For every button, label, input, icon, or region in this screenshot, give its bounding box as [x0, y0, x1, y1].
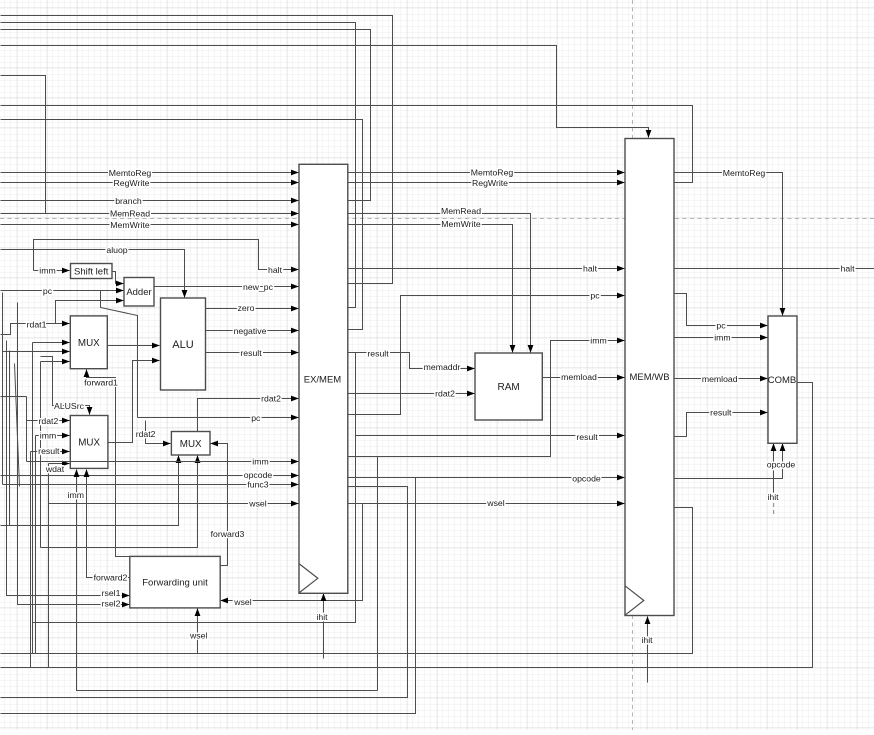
- wire MUX2 output to ALU: [108, 361, 160, 443]
- svg-text:MemtoReg: MemtoReg: [723, 168, 766, 178]
- svg-text:forward1: forward1: [84, 378, 118, 388]
- svg-text:rdat2: rdat2: [136, 429, 156, 439]
- MUX2 operand B: [70, 416, 108, 469]
- svg-text:result: result: [710, 407, 732, 417]
- svg-text:MUX: MUX: [78, 438, 100, 449]
- wire regfile vertical: [9, 351, 11, 526]
- wire MUX1 input4 vertical: [40, 362, 42, 548]
- svg-text:memaddr: memaddr: [424, 362, 461, 372]
- svg-text:negative: negative: [234, 326, 267, 336]
- wire imm into MUX2 vertical: [35, 436, 37, 654]
- svg-text:pc: pc: [590, 291, 600, 301]
- svg-text:halt: halt: [268, 265, 283, 275]
- wire result into MUX2: [31, 451, 70, 453]
- svg-text:wsel: wsel: [189, 631, 207, 641]
- wire MemtoReg EX/MEM to MEM/WB: [349, 172, 625, 174]
- wire ALUSrc into MUX2: [41, 357, 90, 415]
- wire zero ALU to EX/MEM: [206, 308, 299, 310]
- svg-text:result: result: [367, 348, 389, 358]
- svg-text:RAM: RAM: [497, 382, 519, 393]
- wire rdat2 to RAM: [349, 393, 475, 395]
- svg-text:imm: imm: [252, 456, 268, 466]
- wire wdat COMB feedback: [1, 383, 813, 668]
- svg-text:opcode: opcode: [767, 459, 796, 469]
- svg-text:forward3: forward3: [211, 529, 245, 539]
- wire rdat2 into MUX3: [146, 421, 171, 444]
- svg-text:pc: pc: [251, 413, 261, 423]
- wire MemWrite to RAM: [349, 225, 513, 353]
- wire MUX1 input2 vertical: [32, 343, 34, 654]
- svg-text:imm: imm: [590, 336, 606, 346]
- svg-text:MEM/WB: MEM/WB: [629, 372, 669, 383]
- svg-text:wdat: wdat: [45, 464, 65, 474]
- svg-text:wsel: wsel: [486, 498, 504, 508]
- svg-text:zero: zero: [238, 303, 255, 313]
- wire imm from below to MUX2: [77, 470, 378, 691]
- wire rsel1 into forwarding unit: [7, 341, 130, 596]
- wire func3 row into EX/MEM: [3, 484, 299, 486]
- wire MUX1 input4: [41, 361, 70, 363]
- svg-text:wsel: wsel: [248, 498, 266, 508]
- wire result ALU to EX/MEM: [206, 352, 299, 354]
- wire wsel into forwarding unit bottom: [197, 609, 199, 654]
- svg-text:imm: imm: [40, 431, 56, 441]
- svg-text:aluop: aluop: [106, 245, 127, 255]
- wire zero feedback loop: [1, 23, 356, 308]
- wire halt EX/MEM to MEM/WB: [349, 268, 625, 270]
- svg-text:pc: pc: [43, 286, 53, 296]
- wire MemRead to RAM: [349, 214, 531, 353]
- wire wsel tap to forwarding unit: [221, 504, 363, 601]
- svg-text:MemWrite: MemWrite: [110, 220, 150, 230]
- MEM/WB pipeline register: [625, 139, 674, 616]
- wire new_pc Adder to EX/MEM: [155, 286, 299, 288]
- wire imm row into EX/MEM (drawn over MUX2): [27, 461, 299, 463]
- wire Shift left to Adder: [113, 272, 124, 284]
- wire ihit into MEM/WB: [647, 617, 649, 683]
- wire RegWrite EX/MEM to MEM/WB: [349, 182, 625, 184]
- wire negative ALU to EX/MEM: [206, 330, 299, 332]
- wire new_pc feedback loop: [1, 16, 393, 284]
- svg-text:imm: imm: [714, 332, 730, 342]
- svg-text:MemtoReg: MemtoReg: [471, 168, 514, 178]
- wire rsel2 into forwarding unit: [18, 303, 130, 605]
- svg-text:MUX: MUX: [78, 338, 100, 349]
- svg-text:Adder: Adder: [126, 287, 151, 298]
- svg-text:pc: pc: [716, 321, 726, 331]
- wire memload RAM to MEM/WB: [543, 377, 625, 379]
- MUX3 store data: [171, 432, 210, 456]
- wire result vertical tap: [33, 353, 356, 623]
- svg-text:ihit: ihit: [316, 612, 328, 622]
- wire RegWrite into EX/MEM: [1, 182, 299, 184]
- svg-text:new_pc: new_pc: [243, 282, 274, 292]
- svg-text:ALU: ALU: [172, 339, 193, 351]
- wire pc into EX/MEM: [138, 417, 299, 419]
- wire wsel row into EX/MEM: [49, 503, 299, 505]
- wire imm into MUX2: [36, 435, 70, 437]
- wire to MEM/WB top: [1, 46, 649, 138]
- svg-text:forward2: forward2: [94, 573, 128, 583]
- wire pc into Adder: [1, 290, 124, 292]
- svg-text:wsel: wsel: [233, 597, 251, 607]
- svg-text:memload: memload: [561, 372, 597, 382]
- wire MemtoReg MEM/WB to COMB: [675, 173, 783, 316]
- wire negative feedback loop: [1, 120, 363, 330]
- svg-text:opcode: opcode: [244, 470, 273, 480]
- svg-text:rsel2: rsel2: [102, 599, 121, 609]
- wire ihit into COMB: [773, 444, 775, 493]
- ihit dashed stub below COMB: [773, 503, 775, 517]
- EX/MEM clock triangle: [299, 564, 318, 593]
- svg-text:ALUSrc: ALUSrc: [54, 401, 85, 411]
- wire MemRead source corner: [1, 76, 46, 214]
- wire pc MEM/WB to COMB: [675, 294, 768, 326]
- svg-text:imm: imm: [68, 490, 84, 500]
- COMB write-back unit: [768, 316, 797, 443]
- svg-text:MUX: MUX: [180, 439, 202, 450]
- wire MemWrite into EX/MEM: [1, 224, 299, 226]
- wire RegWrite feedback loop: [1, 106, 693, 183]
- wire branch feedback loop: [1, 30, 371, 201]
- svg-text:func3: func3: [247, 480, 268, 490]
- wire opcode MEM/WB to COMB: [675, 444, 783, 479]
- wire MUX1 output to ALU: [108, 345, 160, 347]
- svg-text:MemRead: MemRead: [110, 209, 150, 219]
- wire MUX1 input3: [3, 351, 70, 353]
- svg-text:rdat2: rdat2: [38, 416, 58, 426]
- svg-text:ihit: ihit: [767, 492, 779, 502]
- svg-text:result: result: [38, 446, 60, 456]
- svg-text:halt: halt: [840, 264, 855, 274]
- wire branch into EX/MEM: [1, 200, 299, 202]
- Adder: [124, 278, 154, 307]
- svg-text:rdat2: rdat2: [435, 389, 455, 399]
- RAM memory: [475, 353, 542, 420]
- wire imm into Shift left: [34, 270, 70, 272]
- wire wsel loop bottom: [1, 508, 693, 654]
- svg-text:MemtoReg: MemtoReg: [109, 168, 152, 178]
- svg-text:Shift left: Shift left: [74, 267, 109, 278]
- wire opcode EX/MEM to MEM/WB: [349, 477, 625, 479]
- EX/MEM pipeline register: [299, 164, 348, 593]
- wire forwarded data to MUX3 bottom 1: [1, 456, 179, 526]
- svg-text:imm: imm: [39, 265, 55, 275]
- svg-text:halt: halt: [583, 264, 598, 274]
- svg-text:result: result: [576, 432, 598, 442]
- wire imm MEM/WB to COMB: [675, 337, 768, 339]
- wire MemtoReg into EX/MEM: [1, 172, 299, 174]
- wire result MEM/WB to COMB: [675, 413, 768, 437]
- page boundary dashed vertical: [632, 0, 634, 730]
- svg-text:opcode: opcode: [572, 473, 601, 483]
- wire pc EX/MEM to MEM/WB: [349, 296, 625, 415]
- wire memaddr result to RAM: [349, 353, 475, 369]
- wire imm EX/MEM to MEM/WB: [349, 341, 625, 457]
- wire wdat into MUX2: [49, 463, 70, 465]
- wire rdat2 vertical: [26, 397, 28, 462]
- svg-text:ihit: ihit: [641, 635, 653, 645]
- wire opcode loop down: [1, 478, 416, 714]
- svg-text:RegWrite: RegWrite: [472, 178, 508, 188]
- wire forward3 to MUX3: [211, 444, 228, 566]
- MEM/WB clock triangle: [625, 586, 644, 615]
- page boundary dashed horizontal: [0, 218, 874, 220]
- wire rdat2 horizontal top: [1, 396, 27, 398]
- wire result into MUX2 vertical: [30, 452, 32, 668]
- wire wdat vertical: [48, 464, 50, 668]
- wire imm loop vertical: [377, 457, 379, 691]
- wire halt output: [675, 268, 874, 270]
- wire MUX1 input2: [33, 342, 70, 344]
- wire diagonal regfile: [15, 364, 20, 487]
- svg-text:rsel1: rsel1: [102, 588, 121, 598]
- Forwarding unit: [130, 556, 220, 608]
- wire forward1 to MUX1: [87, 370, 130, 557]
- wire aluop into ALU: [1, 250, 185, 298]
- wire rdat1 branch to Adder: [56, 301, 124, 324]
- svg-text:result: result: [240, 348, 262, 358]
- wire opcode row into EX/MEM: [1, 475, 299, 477]
- Shift left unit: [71, 264, 113, 279]
- wire pc branch diagonal: [101, 291, 138, 418]
- wire forward2 to MUX2: [87, 470, 130, 578]
- wire rdat1 into MUX1: [1, 324, 70, 335]
- wire ihit into EX/MEM: [323, 594, 325, 659]
- svg-text:rdat1: rdat1: [27, 319, 47, 329]
- wire halt into EX/MEM: [34, 240, 299, 271]
- ALU: [161, 298, 206, 390]
- svg-text:MemWrite: MemWrite: [441, 219, 481, 229]
- wire result to MEM/WB: [356, 435, 625, 437]
- svg-text:EX/MEM: EX/MEM: [304, 374, 342, 385]
- wire MemRead into EX/MEM: [1, 213, 299, 215]
- wire memload MEM/WB to COMB: [675, 378, 768, 380]
- wire forwarded data to MUX3 bottom 2: [41, 456, 198, 548]
- MUX1 operand A: [70, 316, 107, 369]
- wire rdat2 into MUX2: [27, 420, 70, 422]
- wire MUX3 output to EX/MEM rdat2: [198, 399, 299, 432]
- wire func3 loop down: [1, 487, 408, 698]
- wire MUX1 input3 vertical: [2, 293, 4, 485]
- svg-text:Forwarding unit: Forwarding unit: [142, 578, 208, 589]
- svg-text:memload: memload: [702, 374, 738, 384]
- svg-text:COMB: COMB: [768, 375, 797, 386]
- svg-text:MemRead: MemRead: [441, 206, 481, 216]
- wire wsel EX/MEM to MEM/WB: [349, 503, 625, 505]
- svg-text:branch: branch: [115, 196, 142, 206]
- svg-text:RegWrite: RegWrite: [113, 178, 149, 188]
- svg-text:rdat2: rdat2: [261, 394, 281, 404]
